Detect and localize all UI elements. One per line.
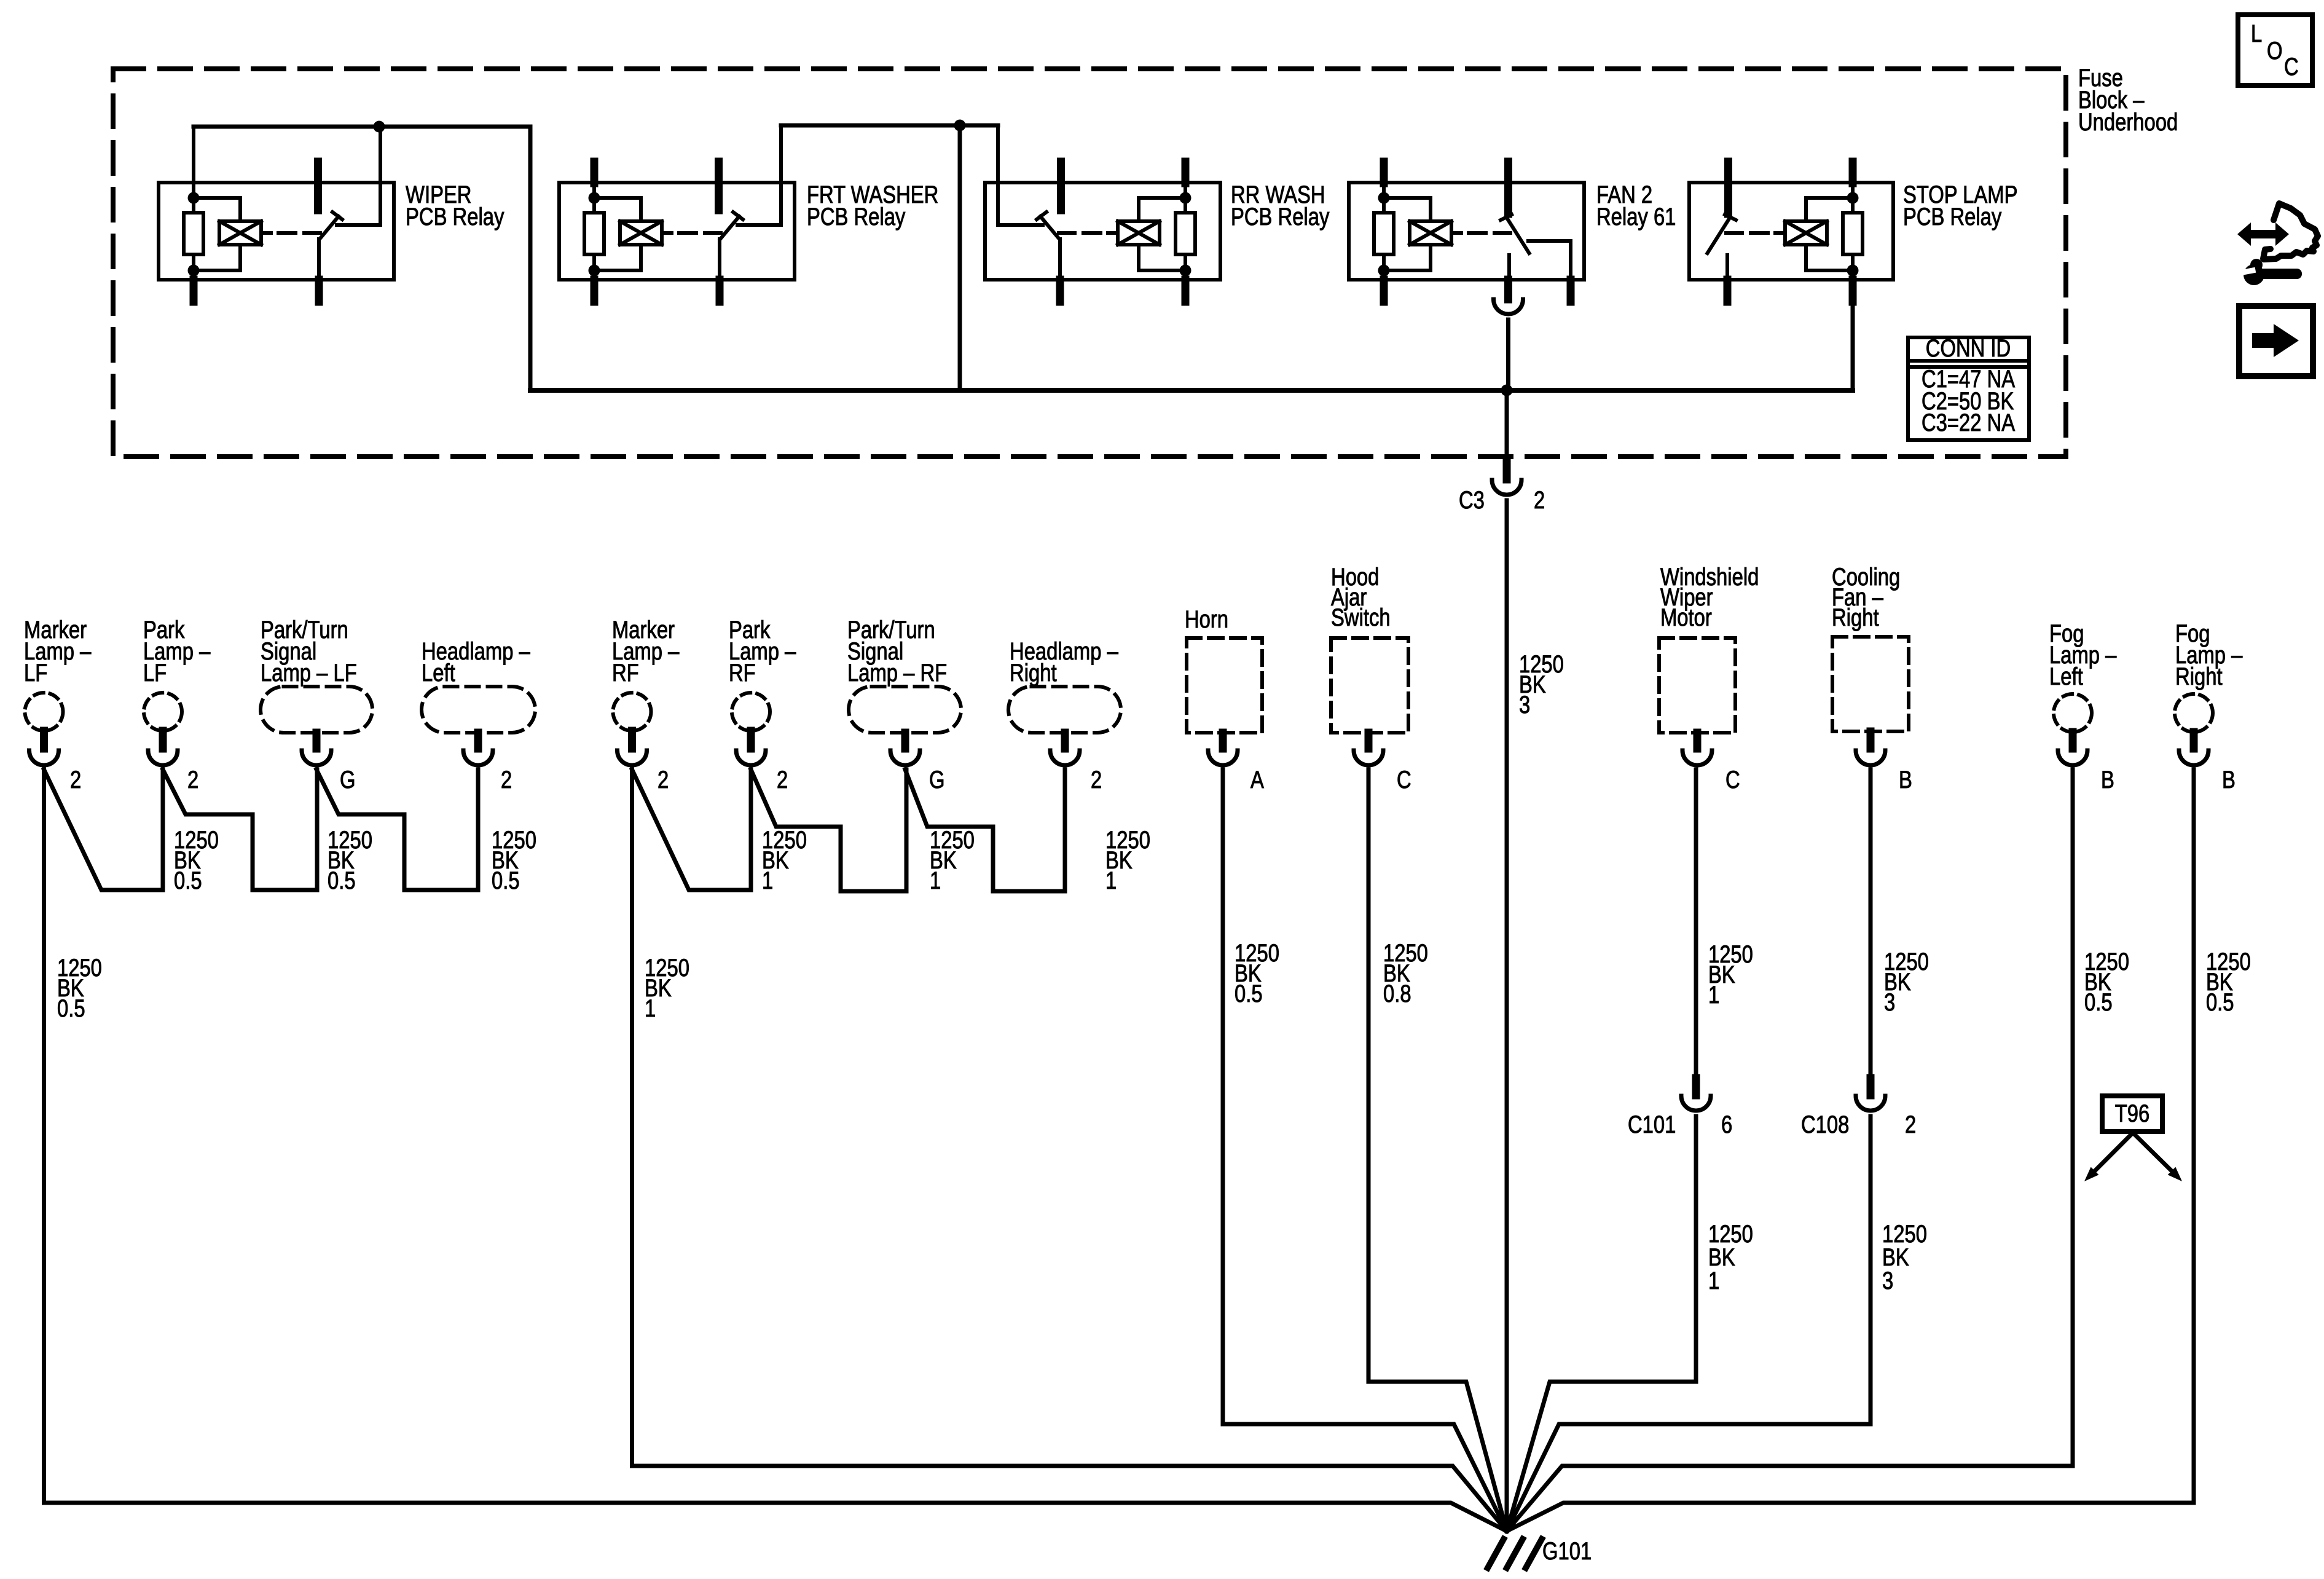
relay RR WASH PCB Relay box (985, 183, 1220, 280)
svg-text:LF: LF (143, 659, 167, 687)
wire Park LF joining Marker LF splice (44, 770, 163, 890)
component Marker Lamp - RF (613, 693, 651, 731)
svg-text:PCB Relay: PCB Relay (1231, 203, 1330, 230)
svg-text:Right: Right (1010, 659, 1057, 687)
component Park Lamp - RF (732, 693, 770, 731)
svg-text:PCB Relay: PCB Relay (807, 203, 906, 230)
wire bus corner down to RR WASH switch (998, 125, 1043, 225)
component Park Lamp - LF (144, 693, 182, 731)
forward arrow hotlink box (2239, 306, 2313, 376)
svg-text:Switch: Switch (1331, 604, 1391, 631)
wire Headlamp Left joining Park/Turn LF splice (316, 770, 478, 890)
relay WIPER PCB Relay box (159, 183, 394, 280)
connector pin under FAN 2 relay (1504, 282, 1512, 297)
connector at Headlamp Left (474, 733, 482, 749)
svg-text:G: G (929, 766, 945, 793)
svg-text:L: L (2251, 20, 2262, 47)
svg-text:Left: Left (422, 659, 455, 687)
svg-text:0.5: 0.5 (2084, 988, 2113, 1016)
svg-text:6: 6 (1721, 1111, 1732, 1138)
power takeout icon (double arrow, outline, wrench) (2237, 222, 2289, 246)
component Fog Lamp - Right (2175, 694, 2213, 732)
wire junction drop to ground bus (958, 125, 962, 390)
connector C108 (1867, 1078, 1875, 1095)
svg-text:Lamp – RF: Lamp – RF (847, 659, 947, 687)
svg-text:T96: T96 (2115, 1100, 2150, 1127)
svg-text:B: B (2101, 766, 2114, 793)
relay STOP LAMP PCB Relay internals (1849, 162, 1857, 183)
svg-text:Relay 61: Relay 61 (1596, 203, 1676, 230)
svg-text:C3=22 NA: C3=22 NA (1922, 409, 2016, 436)
svg-text:2: 2 (658, 766, 669, 793)
component Marker Lamp - LF (25, 693, 63, 731)
svg-text:1: 1 (1708, 981, 1719, 1009)
svg-text:0.5: 0.5 (328, 867, 356, 894)
svg-text:1: 1 (762, 867, 773, 894)
svg-text:3: 3 (1882, 1267, 1893, 1294)
svg-text:Right: Right (2175, 663, 2223, 690)
wire Headlamp Right joining Park/Turn RF splice (905, 770, 1065, 891)
svg-text:RF: RF (729, 659, 756, 687)
svg-text:1: 1 (1105, 867, 1117, 894)
svg-text:G101: G101 (1542, 1537, 1592, 1565)
relay STOP LAMP PCB Relay box (1689, 183, 1893, 280)
CONN ID table (1908, 337, 2029, 440)
component Fog Lamp - Left (2054, 694, 2092, 732)
wire C101 pin 6 to G101 (1507, 1116, 1696, 1531)
relay FRT WASHER PCB Relay box (559, 183, 795, 280)
connector at Park Lamp LF (159, 731, 167, 749)
connector at Fog Lamp Right (2190, 732, 2198, 749)
component Park/Turn Signal Lamp - LF (261, 687, 372, 733)
svg-text:C3: C3 (1459, 486, 1485, 514)
wire FRT WASHER switch output bus (779, 125, 783, 225)
svg-text:2: 2 (1905, 1111, 1916, 1138)
wire Park RF joining Marker RF splice (632, 770, 752, 890)
svg-text:O: O (2267, 37, 2283, 65)
svg-text:RF: RF (612, 659, 639, 687)
svg-text:Right: Right (1832, 604, 1879, 631)
component Cooling Fan - Right (1832, 637, 1909, 731)
connector at Windshield Wiper Motor (1694, 733, 1702, 749)
connector at Cooling Fan Right (1867, 731, 1875, 749)
relay RR WASH PCB Relay internals (1182, 162, 1190, 183)
wire Park/Turn RF joining Park RF splice (751, 770, 906, 891)
wire Marker LF ground feed to G101 (44, 770, 1507, 1531)
component Headlamp - Right (1008, 687, 1121, 733)
svg-text:0.5: 0.5 (2206, 988, 2234, 1016)
wire Park/Turn LF joining Park LF splice (163, 770, 317, 890)
svg-text:PCB Relay: PCB Relay (1903, 203, 2002, 230)
component Hood Ajar Switch (1331, 638, 1408, 733)
svg-text:1: 1 (1708, 1267, 1719, 1294)
svg-text:0.5: 0.5 (492, 867, 520, 894)
svg-text:Underhood: Underhood (2078, 108, 2178, 136)
svg-text:LF: LF (24, 659, 47, 687)
LOC hotlink box (2238, 15, 2312, 85)
svg-text:A: A (1250, 766, 1264, 793)
fuse block underhood dashed boundary (113, 69, 2066, 457)
svg-text:2: 2 (501, 766, 512, 793)
svg-text:2: 2 (70, 766, 81, 793)
connector at Hood Ajar Switch (1365, 733, 1373, 749)
svg-text:0.5: 0.5 (1235, 980, 1263, 1007)
connector at Marker Lamp LF (40, 731, 48, 749)
connector at Park/Turn LF (313, 733, 321, 749)
svg-text:3: 3 (1519, 691, 1530, 719)
arrow from T96 to Fog Lamp Left wire (2095, 1133, 2133, 1171)
svg-text:1: 1 (930, 867, 941, 894)
svg-text:Left: Left (2049, 663, 2083, 690)
svg-text:3: 3 (1884, 988, 1895, 1016)
svg-text:C: C (1397, 766, 1411, 793)
svg-text:B: B (2222, 766, 2236, 793)
wire Marker RF ground feed to G101 (632, 770, 1507, 1531)
component Horn (1187, 638, 1262, 733)
wire STOP LAMP coil return to ground bus (1851, 270, 1855, 390)
svg-text:2: 2 (187, 766, 198, 793)
wire Fog Lamp Right ground to G101 (1507, 770, 2194, 1531)
svg-text:2: 2 (777, 766, 788, 793)
svg-text:1: 1 (645, 994, 656, 1022)
wire FAN 2 common to ground bus (1506, 320, 1510, 390)
svg-text:C: C (2284, 53, 2299, 81)
component Park/Turn Signal Lamp - RF (849, 687, 961, 733)
wire C108 pin 2 to G101 (1507, 1116, 1871, 1531)
svg-text:0.8: 0.8 (1383, 980, 1411, 1007)
svg-text:Horn: Horn (1185, 605, 1228, 633)
svg-text:PCB Relay: PCB Relay (406, 203, 504, 230)
relay FAN 2 Relay 61 box (1349, 183, 1584, 280)
svg-text:Motor: Motor (1660, 604, 1712, 631)
svg-text:0.5: 0.5 (174, 867, 202, 894)
wire Fog Lamp Left ground to G101 (1507, 770, 2073, 1531)
svg-text:2: 2 (1091, 766, 1102, 793)
svg-text:C101: C101 (1628, 1111, 1676, 1138)
connector C101 (1692, 1078, 1700, 1095)
connector at Marker Lamp RF (628, 731, 636, 749)
connector at Park/Turn RF (901, 733, 909, 749)
component Windshield Wiper Motor (1659, 638, 1735, 733)
wire from ground bus through connector C3 (1505, 390, 1509, 462)
arrow from T96 to Fog Lamp Right wire (2133, 1133, 2172, 1171)
wire Wiper Motor ground to C101 (1694, 770, 1698, 1078)
wire Cooling Fan ground to C108 (1869, 770, 1873, 1078)
wire Horn ground to G101 (1223, 770, 1507, 1531)
wire Hood Ajar Switch ground to G101 (1368, 770, 1507, 1531)
svg-text:CONN ID: CONN ID (1926, 334, 2011, 362)
takeout T96 box (2102, 1096, 2162, 1132)
wire C3 pin 2 down to G101 (1505, 500, 1509, 1531)
svg-text:B: B (1899, 766, 1912, 793)
svg-text:C108: C108 (1801, 1111, 1849, 1138)
svg-text:0.5: 0.5 (57, 994, 85, 1022)
relay WIPER PCB Relay internals (192, 127, 195, 280)
ground G101 symbol (1488, 1539, 1504, 1568)
connector at Park Lamp RF (747, 731, 755, 749)
connector at Horn (1219, 733, 1227, 749)
connector at Fog Lamp Left (2069, 732, 2077, 749)
relay FRT WASHER PCB Relay internals (591, 162, 599, 183)
ground bus inside fuse block (530, 388, 1853, 393)
relay FAN 2 Relay 61 internals (1380, 162, 1388, 183)
svg-text:Lamp – LF: Lamp – LF (261, 659, 357, 687)
connector at Headlamp Right (1061, 733, 1069, 749)
wire bus from WIPER coil and switch output (194, 125, 530, 129)
component Headlamp - Left (422, 687, 535, 733)
svg-text:G: G (340, 766, 356, 793)
svg-text:C: C (1725, 766, 1740, 793)
svg-text:2: 2 (1534, 486, 1545, 514)
